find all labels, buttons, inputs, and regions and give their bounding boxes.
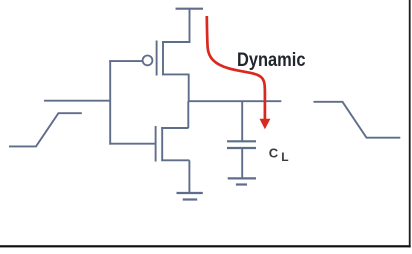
transistor M1 PMOS — [143, 41, 191, 76]
capacitor CL — [227, 141, 256, 148]
input waveform rising edge — [9, 113, 82, 146]
wire PMOS drain to output node — [188, 74, 190, 101]
ground at CL — [228, 178, 256, 184]
wire VDD to PMOS source — [189, 9, 191, 42]
wire output node to CL — [241, 101, 243, 141]
dynamic current arrow (red) — [207, 16, 271, 129]
wire to PMOS gate — [109, 60, 142, 62]
input wire — [44, 100, 111, 102]
power symbol VDD — [176, 8, 204, 10]
slide right border — [409, 0, 411, 247]
wire NMOS source to ground — [188, 160, 190, 193]
wire to NMOS gate — [109, 143, 155, 145]
ground at NMOS source — [177, 193, 203, 200]
slide bottom border — [0, 245, 411, 247]
svg-text:L: L — [281, 150, 288, 164]
svg-text:Dynamic: Dynamic — [237, 49, 306, 71]
node OUT wire — [188, 100, 281, 102]
wire CL to ground — [241, 149, 243, 179]
wire input junction vertical — [109, 60, 111, 144]
transistor M2 NMOS — [156, 126, 190, 162]
svg-text:C: C — [269, 146, 279, 161]
wire NMOS drain to output node — [187, 101, 189, 128]
label CL — [269, 146, 289, 164]
output waveform falling edge — [314, 102, 401, 138]
